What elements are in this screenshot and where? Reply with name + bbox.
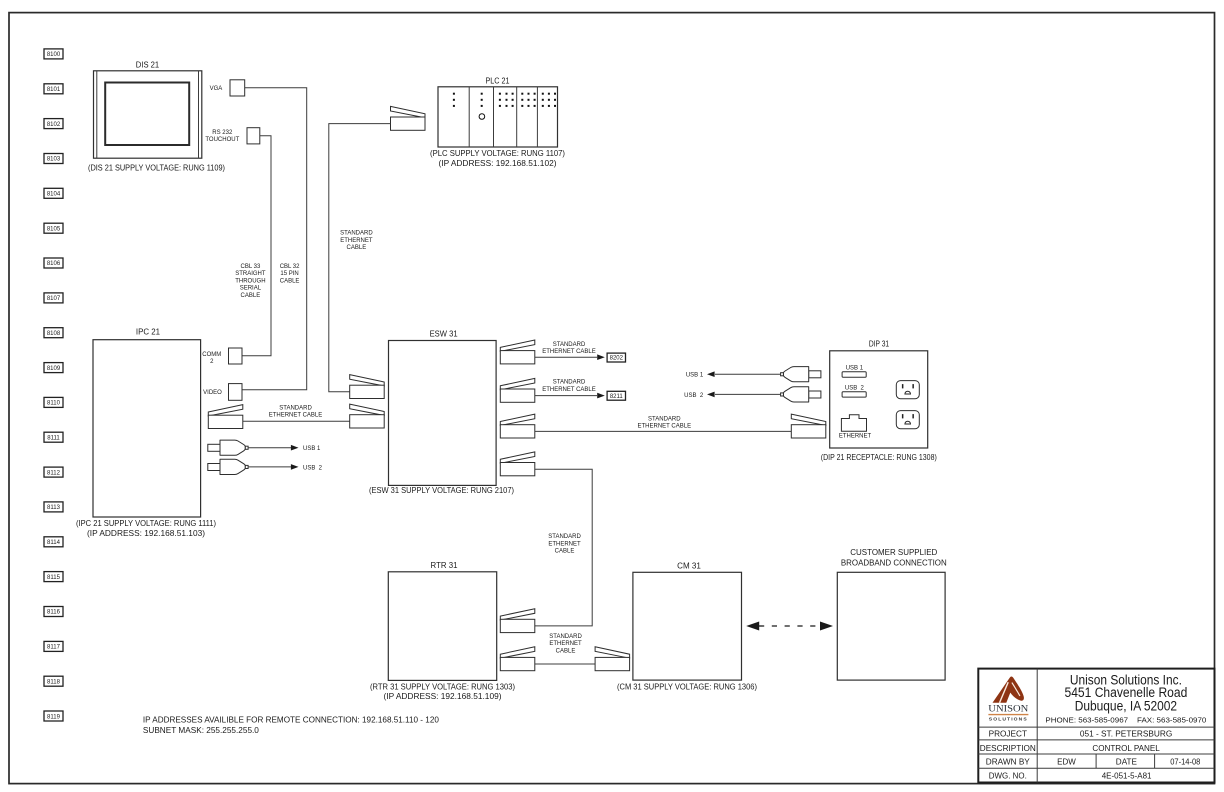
svg-text:USB 2: USB 2 [845, 386, 865, 392]
svg-text:8211: 8211 [610, 394, 624, 400]
svg-text:DATE: DATE [1116, 758, 1137, 767]
svg-text:8108: 8108 [47, 331, 61, 337]
svg-text:(PLC SUPPLY VOLTAGE: RUNG 1107: (PLC SUPPLY VOLTAGE: RUNG 1107) [430, 149, 565, 158]
title block table [978, 669, 1214, 783]
svg-text:COMM: COMM [202, 352, 221, 358]
wire CBL 33: RS232 to COMM 2 [242, 136, 271, 356]
rung label 8115 [44, 572, 63, 582]
customer supplied broadband connection box [837, 572, 945, 680]
rung label 8105 [44, 223, 63, 233]
svg-text:07-14-08: 07-14-08 [1170, 758, 1201, 767]
ethernet plug at DIP [791, 414, 826, 425]
svg-text:TOUCHOUT: TOUCHOUT [205, 137, 239, 143]
svg-text:CABLE: CABLE [555, 549, 575, 555]
svg-text:RTR 31: RTR 31 [431, 561, 458, 570]
svg-text:(IP ADDRESS: 192.168.51.102): (IP ADDRESS: 192.168.51.102) [439, 159, 557, 168]
display DIS 21 screen [105, 83, 189, 146]
svg-text:USB 2: USB 2 [684, 393, 704, 399]
svg-text:STANDARD: STANDARD [549, 634, 582, 640]
USB plug 1 at DIP [809, 371, 821, 378]
wire RTR port2 to CM [535, 663, 595, 665]
svg-text:8117: 8117 [47, 645, 61, 651]
ESW left port 1 plug [350, 375, 385, 386]
svg-text:8103: 8103 [47, 157, 61, 163]
rung label 8113 [44, 502, 63, 512]
wire CBL 32: VGA to VIDEO [242, 88, 307, 390]
svg-text:PLC 21: PLC 21 [486, 76, 510, 85]
svg-text:(RTR 31 SUPPLY VOLTAGE: RUNG 1: (RTR 31 SUPPLY VOLTAGE: RUNG 1303) [370, 683, 515, 692]
rung label 8110 [44, 397, 63, 407]
svg-text:RS 232: RS 232 [212, 130, 233, 136]
rung label 8114 [44, 537, 63, 547]
svg-text:8100: 8100 [47, 52, 61, 58]
wire USB 1 [248, 447, 291, 449]
USB plug 2 at DIP [809, 391, 821, 398]
svg-text:CABLE: CABLE [241, 293, 261, 299]
DIP power outlet 1 [896, 381, 919, 399]
svg-text:STANDARD: STANDARD [340, 231, 373, 237]
PLC 21 slot indicator dots [453, 93, 455, 95]
wire standard ethernet cable: PLC to ESW port 1 [329, 124, 391, 392]
connector RS 232 TOUCHOUT [247, 128, 260, 144]
svg-text:DESCRIPTION: DESCRIPTION [980, 744, 1036, 753]
svg-text:8118: 8118 [47, 679, 61, 685]
svg-text:VGA: VGA [210, 86, 223, 92]
PLC 21 indicator circle [479, 114, 485, 120]
svg-text:STRAIGHT: STRAIGHT [235, 271, 266, 277]
ESW right port 2 plug [500, 378, 535, 389]
svg-text:8111: 8111 [47, 435, 60, 441]
svg-text:VIDEO: VIDEO [203, 390, 222, 396]
PLC 21 rack [438, 87, 558, 147]
rung label 8106 [44, 258, 63, 268]
svg-text:ETHERNET CABLE: ETHERNET CABLE [542, 349, 596, 355]
svg-text:8202: 8202 [610, 356, 624, 362]
Unison Solutions logo mountain [993, 677, 1024, 703]
svg-text:THROUGH: THROUGH [235, 278, 265, 284]
svg-text:DRAWN BY: DRAWN BY [986, 758, 1031, 767]
ESW 31 ethernet switch [389, 341, 497, 486]
DIP power outlet 2 [896, 411, 919, 429]
display DIS 21 outer bezel [94, 71, 202, 158]
rung label 8108 [44, 328, 63, 338]
svg-text:8110: 8110 [47, 401, 61, 407]
svg-text:IPC 21: IPC 21 [136, 328, 161, 337]
svg-text:CONTROL PANEL: CONTROL PANEL [1092, 744, 1160, 753]
rung label 8112 [44, 467, 63, 477]
rung label 8100 [44, 49, 63, 59]
svg-text:STANDARD: STANDARD [553, 342, 586, 348]
svg-text:ETHERNET: ETHERNET [548, 541, 581, 547]
ESW right port 1 plug [500, 340, 535, 351]
svg-text:ETHERNET CABLE: ETHERNET CABLE [269, 413, 323, 419]
svg-text:USB 1: USB 1 [846, 366, 864, 372]
wire ESW port4 to RTR port1 [535, 469, 592, 626]
svg-text:CUSTOMER SUPPLIED: CUSTOMER SUPPLIED [850, 548, 937, 557]
svg-text:DWG. NO.: DWG. NO. [989, 772, 1027, 781]
svg-text:BROADBAND CONNECTION: BROADBAND CONNECTION [841, 558, 947, 567]
ethernet plug at CM 31 [595, 647, 630, 658]
rung label 8117 [44, 641, 63, 651]
svg-text:8113: 8113 [47, 505, 61, 511]
svg-text:15 PIN: 15 PIN [280, 271, 298, 277]
svg-text:SOLUTIONS: SOLUTIONS [989, 717, 1028, 722]
USB plug 1 at IPC [208, 444, 220, 451]
svg-text:EDW: EDW [1057, 758, 1076, 767]
wire USB 1 (DIP) [715, 373, 781, 375]
ethernet plug at IPC 21 [208, 405, 243, 416]
rung label 8119 [44, 711, 63, 721]
svg-text:STANDARD: STANDARD [279, 405, 312, 411]
RTR right port 2 plug [500, 647, 535, 658]
connector COMM 2 [229, 348, 243, 364]
connector VIDEO [229, 384, 243, 401]
svg-text:8104: 8104 [47, 192, 61, 198]
wire ESW port3 to DIP ethernet [535, 430, 792, 432]
svg-text:(ESW 31 SUPPLY VOLTAGE: RUNG 2: (ESW 31 SUPPLY VOLTAGE: RUNG 2107) [369, 486, 514, 495]
svg-text:8102: 8102 [47, 122, 61, 128]
ESW left port 2 plug [350, 404, 385, 415]
svg-text:Dubuque, IA 52002: Dubuque, IA 52002 [1075, 698, 1177, 713]
svg-text:(IP ADDRESS: 192.168.51.109): (IP ADDRESS: 192.168.51.109) [384, 692, 502, 701]
svg-text:8101: 8101 [47, 87, 61, 93]
rung label 8102 [44, 119, 63, 129]
svg-text:8116: 8116 [47, 610, 61, 616]
svg-text:ETHERNET: ETHERNET [839, 433, 872, 439]
wire standard ethernet cable: IPC to ESW port 2 [243, 420, 350, 422]
CM 31 cable modem [633, 572, 742, 680]
svg-text:ETHERNET CABLE: ETHERNET CABLE [638, 424, 692, 430]
svg-text:4E-051-5-A81: 4E-051-5-A81 [1102, 772, 1152, 781]
svg-text:CBL 32: CBL 32 [280, 264, 300, 270]
svg-text:DIS 21: DIS 21 [136, 61, 160, 70]
svg-text:STANDARD: STANDARD [648, 416, 681, 422]
rung label 8109 [44, 363, 63, 373]
rung label 8103 [44, 154, 63, 164]
svg-text:8119: 8119 [47, 714, 61, 720]
svg-text:8112: 8112 [47, 470, 61, 476]
svg-text:STANDARD: STANDARD [553, 380, 586, 386]
rung label 8104 [44, 188, 63, 198]
ethernet plug at PLC 21 [391, 106, 426, 117]
svg-text:8115: 8115 [47, 575, 61, 581]
svg-text:(CM 31 SUPPLY VOLTAGE: RUNG 13: (CM 31 SUPPLY VOLTAGE: RUNG 1306) [617, 682, 757, 691]
rung label 8116 [44, 607, 63, 617]
svg-text:CABLE: CABLE [280, 278, 300, 284]
svg-text:(DIP 21 RECEPTACLE: RUNG 1308): (DIP 21 RECEPTACLE: RUNG 1308) [821, 453, 937, 462]
wire ESW port2 to rung 8211 [535, 395, 597, 397]
svg-text:SERIAL: SERIAL [240, 286, 262, 292]
svg-text:USB 2: USB 2 [303, 465, 323, 471]
svg-text:8107: 8107 [47, 296, 61, 302]
IPC 21 computer [93, 340, 201, 517]
svg-text:ETHERNET: ETHERNET [549, 641, 582, 647]
ESW right port 4 plug [500, 452, 535, 463]
wire ESW port1 to rung 8202 [535, 356, 597, 358]
svg-text:8106: 8106 [47, 261, 61, 267]
wire USB 2 [248, 466, 291, 468]
svg-text:ETHERNET: ETHERNET [340, 238, 373, 244]
svg-text:CBL 33: CBL 33 [241, 264, 261, 270]
USB plug 2 at IPC [208, 464, 220, 471]
svg-text:(IPC 21 SUPPLY VOLTAGE: RUNG 1: (IPC 21 SUPPLY VOLTAGE: RUNG 1111) [76, 519, 216, 528]
DIP ethernet jack [841, 415, 866, 432]
svg-text:051 - ST. PETERSBURG: 051 - ST. PETERSBURG [1080, 730, 1172, 739]
svg-text:DIP 31: DIP 31 [869, 339, 890, 348]
RTR 31 router [388, 572, 496, 681]
wire USB 2 (DIP) [715, 393, 781, 395]
svg-text:8109: 8109 [47, 366, 61, 372]
RTR right port 1 plug [500, 609, 535, 620]
DIP 31 receptacle panel [830, 351, 928, 448]
svg-text:PHONE: 563-585-0967 FAX: 56: PHONE: 563-585-0967 FAX: 563-585-0970 [1045, 716, 1206, 725]
svg-text:PROJECT: PROJECT [989, 730, 1028, 739]
connector VGA [230, 80, 245, 96]
svg-text:CABLE: CABLE [347, 245, 367, 251]
svg-text:ETHERNET CABLE: ETHERNET CABLE [542, 387, 596, 393]
rung label 8111 [44, 432, 63, 442]
rung label 8101 [44, 84, 63, 94]
svg-text:8114: 8114 [47, 540, 61, 546]
svg-text:USB 1: USB 1 [303, 446, 321, 452]
rung label 8118 [44, 676, 63, 686]
svg-text:8105: 8105 [47, 226, 61, 232]
svg-text:STANDARD: STANDARD [548, 534, 581, 540]
rung reference box 8211 [607, 391, 625, 400]
svg-text:(IP ADDRESS: 192.168.51.103): (IP ADDRESS: 192.168.51.103) [87, 529, 205, 538]
svg-text:SUBNET MASK: 255.255.255.0: SUBNET MASK: 255.255.255.0 [143, 726, 260, 735]
svg-text:(DIS 21 SUPPLY VOLTAGE: RUNG 1: (DIS 21 SUPPLY VOLTAGE: RUNG 1109) [88, 163, 225, 172]
svg-text:UNISON: UNISON [988, 705, 1028, 715]
svg-text:ESW 31: ESW 31 [430, 329, 459, 338]
svg-text:CM 31: CM 31 [677, 562, 701, 571]
ESW right port 3 plug [500, 414, 535, 425]
svg-text:USB 1: USB 1 [686, 373, 704, 379]
rung label 8107 [44, 293, 63, 303]
dashed wire CM 31 to broadband [759, 625, 821, 627]
svg-text:IP ADDRESSES AVAILIBLE FOR REM: IP ADDRESSES AVAILIBLE FOR REMOTE CONNEC… [143, 716, 440, 725]
svg-text:CABLE: CABLE [556, 649, 576, 655]
rung reference box 8202 [607, 353, 625, 362]
